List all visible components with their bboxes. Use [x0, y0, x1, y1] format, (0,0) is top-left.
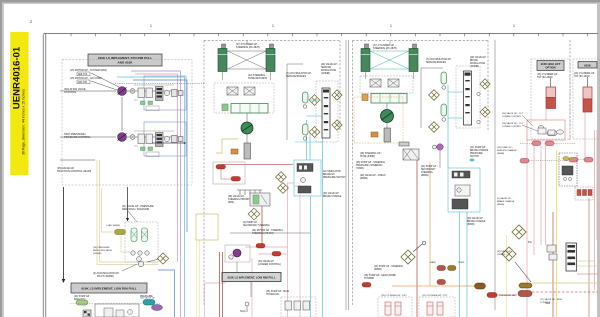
svg-text:(20) VALVE GP - TILT: (20) VALVE GP - TILT: [502, 122, 524, 125]
svg-text:LOWER CONTROL: LOWER CONTROL: [502, 126, 522, 128]
svg-text:(8/84B): (8/84B): [497, 153, 504, 155]
svg-text:(14) PUMP GP - STEERING: (14) PUMP GP - STEERING: [374, 266, 403, 268]
svg-text:STEERING: STEERING: [421, 172, 433, 174]
svg-text:(7) ACCUMULATOR GP -: (7) ACCUMULATOR GP -: [286, 72, 312, 75]
svg-text:PILOT (10/84B): PILOT (10/84B): [97, 275, 114, 278]
svg-text:(24) MOTOR GP - STEERING: (24) MOTOR GP - STEERING: [252, 230, 283, 232]
svg-text:MODULATING: MODULATING: [321, 69, 336, 72]
svg-text:(13) CYLINDER GP -: (13) CYLINDER GP -: [537, 74, 559, 76]
svg-text:(7/84B): (7/84B): [356, 168, 364, 170]
svg-text:(21) PUMP GP -: (21) PUMP GP -: [421, 166, 438, 168]
svg-text:PRESSURE: PRESSURE: [470, 153, 483, 155]
svg-text:(26) PUMP GP - STEERING: (26) PUMP GP - STEERING: [356, 162, 385, 164]
svg-text:SERVICE: SERVICE: [321, 67, 332, 69]
svg-text:MODULATING: MODULATING: [470, 62, 485, 65]
svg-text:(10/84B): (10/84B): [470, 66, 479, 68]
svg-text:(10) CYLINDER GP - LIFT: (10) CYLINDER GP - LIFT: [381, 295, 407, 297]
svg-text:CONTROL: CONTROL: [540, 302, 551, 304]
svg-text:(29) VALVE GP - CHECK: (29) VALVE GP - CHECK: [360, 174, 386, 177]
svg-text:SERVICE BRAKES: SERVICE BRAKES: [426, 61, 446, 64]
svg-text:(8) PUMP GP: (8) PUMP GP: [497, 251, 511, 253]
svg-text:36 Page, dimension: 44 inches: 36 Page, dimension: 44 inches x 15 inche…: [22, 89, 26, 155]
svg-text:HOSE (8/84B): HOSE (8/84B): [360, 156, 375, 158]
svg-text:BRAKE CHARGE: BRAKE CHARGE: [323, 195, 342, 198]
svg-text:(19) PUMP GP -: (19) PUMP GP -: [497, 147, 513, 149]
svg-text:903K: 903K: [584, 63, 591, 67]
svg-text:(11) CYLINDER GP - TILT: (11) CYLINDER GP - TILT: [422, 295, 448, 297]
svg-text:(LOADER CONTROL): (LOADER CONTROL): [258, 263, 281, 266]
svg-text:(14) PRESSURE: (14) PRESSURE: [93, 247, 110, 249]
svg-text:(29) VALVE GP -: (29) VALVE GP -: [470, 56, 487, 59]
svg-text:(21) PUMP GP -: (21) PUMP GP -: [470, 147, 487, 149]
svg-text:306-T05: 306-T05: [78, 81, 88, 84]
svg-text:(15) PUMP GP - MAIN: (15) PUMP GP - MAIN: [266, 290, 289, 293]
svg-text:(7) ACCUMULATOR GP -: (7) ACCUMULATOR GP -: [426, 58, 452, 61]
svg-text:LOAD SENSE: LOAD SENSE: [106, 224, 121, 227]
svg-text:REDUCING VALVE: REDUCING VALVE: [93, 249, 113, 252]
svg-text:(29) VALVE GP -: (29) VALVE GP -: [321, 63, 338, 66]
svg-text:(30) VALVE GP: (30) VALVE GP: [140, 297, 156, 300]
svg-text:(2) PUMP GP -: (2) PUMP GP -: [243, 222, 259, 224]
svg-text:PRESSURE SWITCH: PRESSURE SWITCH: [323, 177, 346, 179]
svg-text:(28) STEERING GP -: (28) STEERING GP -: [360, 153, 382, 155]
svg-text:(8/84B): (8/84B): [421, 175, 429, 177]
svg-text:Temp: Temp: [240, 311, 246, 313]
svg-text:SECONDARY: SECONDARY: [421, 168, 436, 171]
svg-text:PG: PG: [528, 240, 532, 244]
svg-text:916K LS IMPLEMENT, LOW RIM PUL: 916K LS IMPLEMENT, LOW RIM PULL: [227, 276, 275, 280]
svg-text:(13) CYLINDER GP -: (13) CYLINDER GP -: [574, 73, 596, 75]
svg-text:(16) MOTOR GP - SYSTEM (8/84): (16) MOTOR GP - SYSTEM (8/84): [70, 69, 107, 72]
svg-text:OPTION: OPTION: [546, 66, 556, 70]
svg-text:(17) VALVE GP - RIDE: (17) VALVE GP - RIDE: [540, 298, 563, 301]
svg-text:(8/84B): (8/84B): [497, 204, 504, 206]
svg-text:PUMP: PUMP: [458, 262, 465, 264]
svg-text:1: 1: [390, 24, 392, 28]
svg-text:ACCUMULATOR: ACCUMULATOR: [323, 170, 341, 173]
svg-text:HYD/BRK: HYD/BRK: [364, 278, 375, 280]
svg-text:BRAKE: BRAKE: [470, 59, 478, 62]
svg-text:SERVICE BRAKES: SERVICE BRAKES: [286, 75, 306, 78]
svg-text:(10/84B): (10/84B): [497, 254, 506, 256]
svg-text:3E6-T03: 3E6-T03: [78, 73, 88, 76]
svg-text:BRAKE CHARGE: BRAKE CHARGE: [497, 200, 515, 203]
svg-text:916K LS IMPLEMENT, LOW RIM PUL: 916K LS IMPLEMENT, LOW RIM PULL: [81, 287, 136, 291]
svg-text:(8/84B): (8/84B): [374, 269, 382, 271]
svg-text:SECONDARY STEERING: SECONDARY STEERING: [243, 224, 270, 227]
svg-text:(23) PUMP GP -: (23) PUMP GP -: [74, 296, 91, 298]
svg-text:(10/84B): (10/84B): [321, 73, 330, 75]
svg-text:(4) VALVE GP -: (4) VALVE GP -: [497, 197, 512, 200]
svg-text:(8/84B): (8/84B): [360, 178, 368, 180]
svg-text:HYDRAULIC: HYDRAULIC: [266, 293, 280, 296]
svg-text:(8/84): (8/84): [228, 202, 234, 204]
svg-text:BRAKE CHARGE: BRAKE CHARGE: [470, 149, 489, 152]
svg-text:REDUCING / SOLENOID: REDUCING / SOLENOID: [122, 208, 149, 211]
svg-text:1: 1: [150, 24, 152, 28]
svg-text:STEERING (8C-4878): STEERING (8C-4878): [373, 47, 397, 50]
svg-text:SERVICE CHARGE: SERVICE CHARGE: [497, 149, 517, 152]
svg-text:PRESSURE TAP: PRESSURE TAP: [499, 294, 516, 297]
svg-text:(30) VALVE GP: (30) VALVE GP: [323, 192, 339, 195]
svg-text:TRACTION CONTROL (MAIN): TRACTION CONTROL (MAIN): [57, 170, 91, 173]
svg-text:(10/84B): (10/84B): [93, 253, 102, 255]
svg-text:(8/84B): (8/84B): [467, 224, 475, 226]
svg-text:CONTROL: CONTROL: [64, 91, 77, 94]
svg-text:(20) VALVE GP: (20) VALVE GP: [258, 260, 274, 263]
svg-text:(30) VALVE GP -: (30) VALVE GP -: [467, 217, 484, 220]
svg-text:(16) MOTOR GP - A/C COMP: (16) MOTOR GP - A/C COMP: [70, 77, 102, 80]
svg-text:BRAKE CHARGE: BRAKE CHARGE: [467, 220, 486, 223]
svg-text:STEERING (8C-4878): STEERING (8C-4878): [236, 46, 260, 49]
svg-text:(28) VALVE GP -: (28) VALVE GP -: [228, 195, 245, 198]
svg-text:916K HIGH LIFT: 916K HIGH LIFT: [541, 62, 561, 66]
svg-text:LOWER CONTROL: LOWER CONTROL: [502, 116, 522, 118]
svg-text:STEERING PRIORITY: STEERING PRIORITY: [228, 199, 252, 201]
svg-text:MAIN: MAIN: [430, 261, 436, 264]
svg-text:BRAKE GP: BRAKE GP: [323, 173, 335, 176]
svg-text:PRESSURE / STEERING: PRESSURE / STEERING: [356, 165, 383, 167]
svg-text:(20) VALVE GP - TILT: (20) VALVE GP - TILT: [502, 112, 524, 115]
svg-text:STEERING (7/84/04): STEERING (7/84/04): [252, 233, 274, 235]
svg-text:1: 1: [513, 24, 515, 28]
svg-text:(18) PUMP GP - GEAR (8/84B): (18) PUMP GP - GEAR (8/84B): [364, 274, 396, 277]
svg-text:1: 1: [272, 24, 274, 28]
svg-text:AND 918K: AND 918K: [118, 61, 134, 65]
svg-text:STANDARD CONTROL: STANDARD CONTROL: [64, 136, 91, 139]
svg-text:HOSE RETURNS: HOSE RETURNS: [248, 77, 267, 80]
svg-text:SWITCH: SWITCH: [470, 156, 479, 158]
